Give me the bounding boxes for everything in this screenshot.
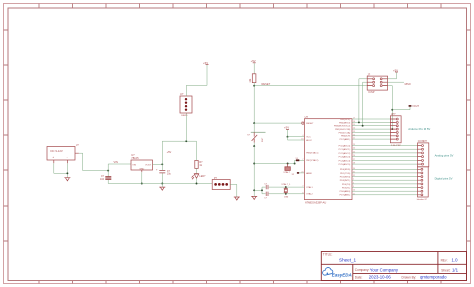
wire MCU group2 row3 <box>352 152 418 154</box>
svg-text:XTAL1: XTAL1 <box>306 186 313 189</box>
node xtal row A junction <box>285 186 287 188</box>
svg-text:VIN: VIN <box>132 164 136 166</box>
switch SW1 <box>247 132 265 142</box>
connector J2 ICSP 2x3 <box>367 72 387 94</box>
regulator U2 78L05 <box>131 153 153 172</box>
svg-text:RESET: RESET <box>306 123 314 125</box>
svg-text:U?: U? <box>180 92 184 96</box>
node J1 gnd junction <box>66 172 68 174</box>
svg-text:qmtemporado: qmtemporado <box>420 275 447 280</box>
svg-text:Sheet_1: Sheet_1 <box>339 257 357 262</box>
wire MCU group3 row8 <box>352 194 418 196</box>
svg-text:REv:: REv: <box>441 258 448 262</box>
svg-text:78L05: 78L05 <box>131 156 139 160</box>
svg-text:VOUT: VOUT <box>145 164 152 166</box>
wire MCU group2 row1 <box>352 145 418 147</box>
svg-text:PB2(SS/OC1B): PB2(SS/OC1B) <box>335 129 350 131</box>
svg-text:PB3(MOSI/OC2): PB3(MOSI/OC2) <box>334 126 351 128</box>
svg-text:Date:: Date: <box>355 275 363 279</box>
svg-text:AVCC: AVCC <box>306 139 312 142</box>
connector CONN2 analog <box>418 139 429 167</box>
svg-text:PD7(AIN1): PD7(AIN1) <box>340 194 351 197</box>
wire MCU group1 row3 <box>352 125 390 127</box>
node crystal gnd link junction <box>253 189 255 191</box>
svg-text:7: 7 <box>302 159 303 161</box>
svg-text:PB7(XTAL2): PB7(XTAL2) <box>306 159 318 162</box>
svg-text:U?: U? <box>305 115 309 119</box>
node switch bottom junction <box>253 145 255 147</box>
wire J1 plus to regulator input <box>79 153 108 170</box>
wire to MCU reset pin <box>254 122 302 124</box>
wire MCU group2 row5 <box>352 159 418 161</box>
svg-text:4: 4 <box>302 135 303 137</box>
svg-text:LED?: LED? <box>199 175 206 178</box>
node drop B junction <box>362 125 364 127</box>
wire reset drop <box>253 86 255 123</box>
node C2 rail junction <box>161 183 163 185</box>
svg-text:16M: 16M <box>284 197 288 199</box>
wire MCU group3 row1 <box>352 168 418 170</box>
svg-text:PB0(ICP): PB0(ICP) <box>341 136 351 138</box>
capacitor C1 <box>100 171 111 184</box>
svg-text:JP?: JP? <box>391 112 396 116</box>
resistor R1 10k <box>249 63 256 85</box>
wire VOUT flag branch <box>392 106 410 110</box>
led LED1 <box>192 168 206 183</box>
svg-text:18: 18 <box>301 139 303 141</box>
svg-text:PC3(ADC3): PC3(ADC3) <box>339 156 351 159</box>
crystal Y2 <box>281 183 291 198</box>
wire osc to MCU pin <box>295 160 305 163</box>
capacitor C4 <box>262 192 304 200</box>
wire to switch <box>253 123 255 133</box>
node MOSI branch junction <box>391 109 393 111</box>
svg-text:PD2(INT0): PD2(INT0) <box>340 177 351 179</box>
svg-text:+5V: +5V <box>167 150 172 154</box>
wire DS to +5V flag <box>186 65 207 96</box>
svg-text:PD7(AIN1): PD7(AIN1) <box>340 138 351 141</box>
svg-text:29: 29 <box>301 122 303 124</box>
svg-text:TITLE:: TITLE: <box>323 253 333 257</box>
wire ICSP MISO stub <box>388 81 404 83</box>
svg-text:XTAL2: XTAL2 <box>306 193 313 196</box>
node regulator gnd junction <box>141 183 143 185</box>
svg-text:10u: 10u <box>167 173 172 176</box>
svg-text:EasyEDA: EasyEDA <box>332 272 352 277</box>
power flag +5V top <box>203 61 209 65</box>
node crystal link junction <box>261 189 263 191</box>
capacitor C2 10u <box>156 164 172 183</box>
svg-text:104: 104 <box>100 178 105 181</box>
svg-text:CONN?: CONN? <box>418 139 428 143</box>
wire MCU group1 row7 <box>352 138 390 140</box>
svg-text:-: - <box>67 155 68 159</box>
wire switch to rail <box>253 143 255 147</box>
ground P1 <box>234 197 240 200</box>
svg-text:Your Company: Your Company <box>370 268 399 273</box>
ground rail <box>159 184 165 191</box>
svg-text:ATMEGA328P-AU: ATMEGA328P-AU <box>305 201 326 205</box>
svg-text:PC1(ADC1): PC1(ADC1) <box>339 148 351 151</box>
node reset bubble <box>302 122 304 124</box>
svg-text:+5V: +5V <box>251 59 256 63</box>
svg-text:PC2(ADC2): PC2(ADC2) <box>339 152 351 155</box>
svg-text:MISO: MISO <box>405 83 411 86</box>
resonator Y1 <box>283 164 290 174</box>
wire MCU group1 row1 <box>352 118 390 120</box>
wire +5V vertical riser <box>162 141 196 164</box>
net flag XT1 <box>296 158 300 161</box>
capacitor C3 <box>262 184 304 190</box>
node led rail junction <box>196 183 198 185</box>
node reset pin junction <box>253 122 255 124</box>
wire up to VIN pin <box>108 164 131 171</box>
svg-text:PD4(T0): PD4(T0) <box>342 184 351 186</box>
wire MCU group2 row2 <box>352 148 418 150</box>
svg-text:RESET: RESET <box>262 82 271 86</box>
svg-text:ICSP: ICSP <box>368 90 374 94</box>
wire VOUT <box>153 163 163 165</box>
wire crystal gnd link <box>254 187 262 194</box>
svg-text:PB4(MISO): PB4(MISO) <box>339 122 350 124</box>
wire DS connector drop <box>185 113 187 141</box>
wire RESET to ICSP <box>254 85 367 87</box>
svg-text:Digital pins 5V: Digital pins 5V <box>435 176 453 180</box>
wire MCU group1 row4 <box>352 128 390 130</box>
wire MCU group2 row6 <box>352 163 418 165</box>
node VIN junction <box>107 170 109 172</box>
svg-text:PC4(ADC4): PC4(ADC4) <box>339 159 351 162</box>
svg-text:20: 20 <box>301 171 303 173</box>
wire ICSP drop B <box>363 82 368 126</box>
svg-text:PD6(AIN0): PD6(AIN0) <box>340 190 351 193</box>
wire ICSP MOSI drop <box>388 86 393 130</box>
node osc row junction <box>253 163 255 165</box>
svg-text:VOUT: VOUT <box>412 105 419 108</box>
ground reset rail <box>251 196 257 199</box>
net flag VOUT <box>409 105 420 108</box>
svg-text:1/1: 1/1 <box>452 268 459 273</box>
svg-text:PD1(TXD): PD1(TXD) <box>340 173 350 175</box>
svg-text:XTAL?: XTAL? <box>283 171 290 174</box>
svg-text:Header 8?: Header 8? <box>417 198 428 201</box>
wire MCU group3 row4 <box>352 179 418 181</box>
svg-text:VCC: VCC <box>306 137 311 139</box>
connector U3 sensor <box>180 92 192 117</box>
svg-text:Company:: Company: <box>355 268 370 272</box>
svg-text:Analog pins 5V: Analog pins 5V <box>435 154 454 158</box>
wire osc row <box>254 163 294 165</box>
wire vcc avcc <box>288 137 305 140</box>
svg-text:PB5(SCK): PB5(SCK) <box>340 119 350 121</box>
title block <box>321 252 466 281</box>
node MOSI jp1 junction <box>391 128 393 130</box>
node xtal row B junction <box>285 193 287 195</box>
wire MCU group3 row6 <box>352 187 418 189</box>
svg-text:AREF: AREF <box>306 172 312 175</box>
svg-text:Drawn By:: Drawn By: <box>402 275 417 279</box>
wire MCU group2 row4 <box>352 156 418 158</box>
svg-text:XTAL?_1: XTAL?_1 <box>281 183 291 186</box>
node vcc junction <box>287 136 289 138</box>
resistor R2 1k <box>195 141 203 168</box>
node osc bend junction <box>294 163 296 165</box>
svg-text:8: 8 <box>302 192 303 194</box>
svg-text:7: 7 <box>302 186 303 188</box>
wire P1 to ground <box>230 184 237 196</box>
wire ICSP to +5V <box>388 72 397 79</box>
svg-text:PC0(ADC0): PC0(ADC0) <box>339 144 351 147</box>
svg-text:Sheet:: Sheet: <box>441 268 450 272</box>
svg-text:VIN: VIN <box>114 160 118 164</box>
connector CONN3 digital <box>417 167 428 201</box>
wire MCU group1 row5 <box>352 131 390 133</box>
connector J1 DC jack <box>47 143 79 163</box>
node reset top junction <box>253 85 255 87</box>
node VOUT junction <box>161 163 163 165</box>
svg-text:1.0: 1.0 <box>452 257 459 262</box>
svg-text:2.54-1*8P: 2.54-1*8P <box>391 145 401 147</box>
wire MCU group1 row6 <box>352 135 390 137</box>
wire bottom rail <box>108 183 212 185</box>
ground battery <box>64 178 70 181</box>
svg-text:PD5(T1): PD5(T1) <box>342 187 351 189</box>
svg-text:RST: RST <box>262 137 264 142</box>
svg-text:PD3(INT1): PD3(INT1) <box>340 180 351 182</box>
wire MCU group1 row2 <box>352 121 390 123</box>
svg-text:PB6(XTAL1): PB6(XTAL1) <box>306 152 318 155</box>
svg-text:PD0(RXD): PD0(RXD) <box>340 169 351 171</box>
svg-text:PC5(ADC5): PC5(ADC5) <box>339 163 351 166</box>
power flag +5V vcc <box>284 126 289 137</box>
wire ICSP drop A <box>359 79 367 123</box>
wire J1 left pin to gnd loop <box>54 163 68 177</box>
wire MCU group3 row2 <box>352 172 418 174</box>
svg-text:18B20: 18B20 <box>181 115 188 117</box>
net flag XT2 <box>292 172 300 176</box>
svg-text:DC 9-12V: DC 9-12V <box>51 149 63 153</box>
svg-text:2023-10-06: 2023-10-06 <box>369 275 392 280</box>
svg-text:+5V: +5V <box>203 61 208 65</box>
connector P1 4pin <box>212 177 230 190</box>
wire osc2 to MCU pin <box>299 172 305 174</box>
svg-text:Arduino Pro M 5V: Arduino Pro M 5V <box>408 127 430 131</box>
node DS riser junction <box>185 140 187 142</box>
power flag +5V icsp <box>393 68 398 72</box>
node drop A junction <box>358 121 360 123</box>
wire MCU group3 row3 <box>352 176 418 178</box>
svg-text:PB1(OC1A): PB1(OC1A) <box>339 131 351 134</box>
op-amp U1 MCU ATMEGA328 <box>301 115 355 205</box>
wire left gnd rail <box>253 146 255 196</box>
wire MCU group3 row5 <box>352 183 418 185</box>
svg-text:+: + <box>52 155 54 159</box>
node resonator tap <box>287 163 289 165</box>
connector JP1 <box>390 112 401 147</box>
wire MCU group3 row7 <box>352 190 418 192</box>
wire regulator gnd <box>141 172 143 183</box>
power flag +5V reset <box>251 59 256 63</box>
